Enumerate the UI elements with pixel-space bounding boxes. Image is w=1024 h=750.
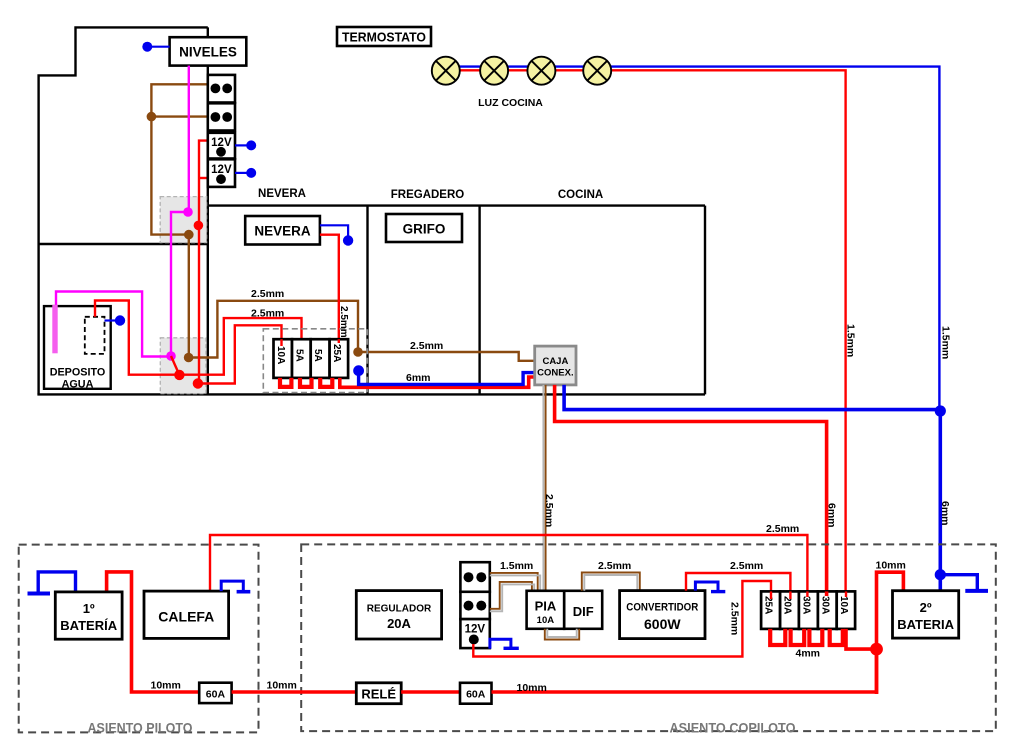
svg-text:LUZ COCINA: LUZ COCINA — [478, 97, 543, 109]
svg-text:NEVERA: NEVERA — [258, 188, 306, 200]
battery 1 box — [55, 592, 122, 639]
svg-text:6mm: 6mm — [406, 372, 431, 384]
fuse 60A second — [460, 683, 492, 704]
ground 12V block blue — [490, 639, 519, 649]
REGULADOR box — [356, 591, 441, 639]
GRIFO box — [386, 214, 462, 242]
wire red nevera to fuse 25A — [320, 235, 339, 343]
CALEFA box — [144, 591, 229, 638]
svg-text:GRIFO: GRIFO — [403, 222, 446, 237]
terminal block bottom 2way A — [460, 562, 489, 592]
DIF box — [564, 591, 602, 629]
node magenta lower box — [166, 351, 176, 361]
battery 2 box — [893, 591, 959, 638]
svg-text:2.5mm: 2.5mm — [598, 560, 631, 572]
svg-text:12V: 12V — [465, 624, 486, 636]
terminal block bottom 2way B — [460, 592, 489, 619]
svg-text:10mm: 10mm — [517, 682, 547, 694]
junction box grey lower — [160, 338, 206, 394]
terminal block 2way B — [208, 103, 235, 130]
wall outline floor plan — [37, 27, 705, 394]
svg-text:AGUA: AGUA — [62, 379, 94, 391]
NEVERA box — [245, 216, 320, 245]
wire red 6mm caja to fuse 30A — [555, 385, 827, 592]
wire blue stub to NIVELES — [150, 46, 170, 48]
svg-text:DIF: DIF — [573, 604, 594, 619]
fuse 10A — [274, 339, 293, 378]
CONVERTIDOR box — [620, 591, 705, 639]
socket 12V upper — [208, 133, 235, 159]
wire red stubs into lower fuses — [771, 591, 846, 599]
svg-text:2.5mm: 2.5mm — [338, 306, 349, 338]
terminal block 2way A — [208, 75, 235, 103]
NIVELES box — [170, 37, 247, 65]
svg-text:6mm: 6mm — [939, 501, 951, 526]
wire brown 2.5mm DIF to convertidor — [582, 573, 640, 591]
node blue 12V lower — [246, 168, 256, 178]
wire brown niveles feed — [151, 84, 534, 361]
ground calefa blue — [221, 581, 250, 592]
svg-text:CONVERTIDOR: CONVERTIDOR — [626, 602, 698, 614]
node red deposito feed — [174, 370, 184, 380]
wire brown PIA-DIF bottom loop — [545, 629, 579, 640]
DEPOSITO AGUA box — [44, 306, 111, 390]
socket 12V lower — [208, 159, 235, 187]
lamp L3 — [527, 57, 555, 85]
svg-text:TERMOSTATO: TERMOSTATO — [342, 30, 426, 45]
fuse 25A lower — [761, 591, 780, 629]
svg-text:20A: 20A — [387, 616, 411, 631]
wire blue nevera — [320, 225, 348, 237]
TERMOSTATO box — [337, 27, 431, 46]
wire red 6mm stub into 30A fuse — [825, 591, 829, 596]
svg-text:1.5mm: 1.5mm — [500, 560, 533, 572]
svg-text:COCINA: COCINA — [558, 189, 603, 201]
node magenta upper box — [183, 207, 193, 217]
node blue deposito — [115, 315, 125, 325]
wire red calefa to fuse 30A 2.5mm — [210, 535, 807, 591]
wire blue 6mm bus to caja — [359, 371, 535, 385]
svg-text:2.5mm: 2.5mm — [251, 288, 284, 300]
svg-text:NIVELES: NIVELES — [179, 45, 237, 60]
node brown elbow upper box — [184, 230, 194, 240]
svg-text:10A: 10A — [537, 615, 555, 626]
svg-text:2º: 2º — [920, 600, 932, 615]
svg-text:2.5mm: 2.5mm — [730, 560, 763, 572]
svg-text:2.5mm: 2.5mm — [410, 340, 443, 352]
fuse 25A upper — [330, 339, 349, 378]
svg-text:BATERÍA: BATERÍA — [60, 618, 117, 633]
svg-text:25A: 25A — [331, 344, 342, 362]
svg-text:CAJA: CAJA — [542, 356, 568, 367]
fusebox housing dashed upper — [263, 329, 367, 393]
svg-text:NEVERA: NEVERA — [254, 224, 311, 239]
node blue nevera terminal — [343, 235, 353, 245]
node blue junction battery2 — [935, 569, 946, 580]
svg-text:60A: 60A — [466, 689, 486, 701]
ground battery1 blue — [28, 572, 76, 594]
node red lower box — [193, 378, 203, 388]
fuse 10A lower — [837, 591, 855, 629]
PIA box — [527, 591, 565, 629]
ground battery2 blue — [940, 575, 988, 591]
svg-text:10mm: 10mm — [876, 560, 906, 572]
node brown junction T — [147, 112, 157, 122]
svg-text:10A: 10A — [838, 596, 849, 614]
node red upper box — [194, 221, 204, 231]
svg-text:PIA: PIA — [535, 599, 557, 614]
svg-text:5A: 5A — [312, 349, 323, 362]
svg-text:30A: 30A — [819, 596, 830, 614]
svg-text:10mm: 10mm — [267, 680, 297, 692]
svg-text:REGULADOR: REGULADOR — [367, 604, 432, 615]
wire red 10A fuse to junction — [846, 629, 877, 649]
wire red battery1 to 60A 10mm — [107, 572, 200, 692]
svg-text:2.5mm: 2.5mm — [766, 523, 799, 535]
svg-text:10mm: 10mm — [151, 680, 181, 692]
wire blue stub 12V lower — [235, 172, 248, 174]
fuse 30A second lower — [818, 591, 837, 629]
wire red stub into 10A fuse — [280, 339, 282, 346]
wire blue 6mm caja to battery2 — [564, 385, 940, 591]
RELE box — [356, 683, 401, 704]
svg-text:1º: 1º — [83, 601, 95, 616]
svg-text:ASIENTO PILOTO: ASIENTO PILOTO — [88, 720, 193, 736]
node blue terminal left of NIVELES — [142, 42, 152, 52]
fuse 5A first — [292, 339, 311, 378]
svg-text:12V: 12V — [211, 164, 232, 176]
socket 12V bottom — [460, 619, 489, 648]
wire ceiling-light red 1.5mm — [446, 70, 846, 591]
lamp L2 — [480, 57, 508, 85]
wire red bottom bus 10mm — [492, 649, 877, 692]
svg-text:2.5mm: 2.5mm — [729, 602, 741, 635]
svg-text:RELÉ: RELÉ — [361, 687, 396, 702]
svg-text:1.5mm: 1.5mm — [845, 324, 857, 357]
wire red fuse bottom jumpers upper — [280, 378, 332, 387]
wire red 60A to RELE 10mm — [232, 690, 357, 694]
lamp L4 — [583, 57, 611, 85]
wire red 12V block to fuse 25A 2.5mm — [473, 581, 771, 657]
lamp L1 — [432, 57, 460, 85]
svg-text:600W: 600W — [644, 616, 681, 632]
fuse 60A first — [199, 683, 231, 703]
CAJA CONEX box — [535, 346, 576, 385]
fuse 20A lower — [780, 591, 799, 629]
wire red convertidor to fuse 20A 2.5mm — [686, 573, 790, 591]
svg-text:DEPOSITO: DEPOSITO — [50, 367, 106, 379]
svg-text:1.5mm: 1.5mm — [940, 326, 952, 359]
wire blue deposito stub — [105, 319, 118, 321]
wire blue stub 12V upper — [235, 144, 248, 146]
fuse 30A first lower — [799, 591, 818, 629]
ground convertidor blue — [695, 582, 725, 592]
node brown lower box — [184, 353, 194, 363]
svg-text:2.5mm: 2.5mm — [251, 307, 284, 319]
svg-text:CALEFA: CALEFA — [158, 609, 214, 625]
svg-text:2.5mm: 2.5mm — [543, 494, 555, 527]
node blue junction lamps riser — [935, 405, 946, 416]
svg-text:BATERIA: BATERIA — [897, 617, 954, 632]
wire brown 1.5mm block to PIA — [490, 573, 540, 611]
svg-text:4mm: 4mm — [796, 648, 821, 660]
wire red stub into 25A fuse — [338, 339, 340, 343]
svg-text:6mm: 6mm — [826, 503, 838, 528]
wire grey-brown pair caja to PIA — [543, 385, 545, 591]
svg-text:CONEX.: CONEX. — [537, 368, 573, 379]
enclosure ASIENTO COPILOTO — [301, 544, 996, 731]
fuse 5A second — [311, 339, 330, 378]
svg-text:10A: 10A — [275, 346, 286, 364]
svg-text:60A: 60A — [206, 689, 226, 701]
svg-text:30A: 30A — [800, 596, 811, 614]
wire magenta niveles — [56, 66, 189, 357]
wire red junction to battery2 10mm — [877, 572, 904, 694]
svg-text:5A: 5A — [293, 349, 304, 362]
node red junction — [870, 643, 883, 656]
node blue 12V upper — [246, 140, 256, 150]
wire ceiling-light blue 1.5mm — [446, 67, 940, 411]
wire red RELE to 60A2 — [401, 690, 460, 694]
wire red fuse bottom jumpers lower 4mm — [770, 629, 843, 645]
sensor bar magenta deposito — [52, 305, 57, 354]
svg-text:FREGADERO: FREGADERO — [391, 189, 465, 201]
svg-text:ASIENTO COPILOTO: ASIENTO COPILOTO — [670, 720, 796, 736]
node blue 6mm start — [353, 365, 364, 376]
node brown at 2.5mm drop — [353, 347, 363, 357]
enclosure ASIENTO PILOTO — [19, 545, 259, 733]
junction box grey upper — [160, 197, 206, 243]
labels compartments NEVERA FREGADERO COCINA — [258, 188, 603, 201]
wire red 12V risers — [95, 141, 302, 384]
